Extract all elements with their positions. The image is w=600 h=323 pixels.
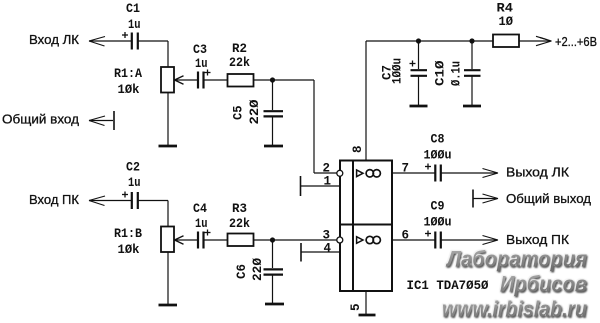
capacitor C9: [425, 231, 441, 249]
supply rail wire: [366, 40, 493, 42]
capacitor C6: [264, 269, 284, 274]
svg-text:1u: 1u: [128, 18, 141, 32]
svg-text:Общий выход: Общий выход: [506, 191, 591, 206]
wire C10 to ground: [471, 76, 473, 105]
svg-text:C4: C4: [193, 202, 207, 216]
svg-text:R2: R2: [232, 42, 247, 56]
wire junction to C6: [272, 240, 274, 268]
pin 1 wire and terminal: [301, 176, 341, 196]
svg-text:22Ø: 22Ø: [251, 258, 265, 281]
svg-text:Лаборатория: Лаборатория: [445, 247, 587, 272]
ground under C10: [463, 105, 481, 108]
ground under C6: [265, 303, 284, 306]
capacitor C8: [425, 164, 441, 182]
capacitor C7: [410, 61, 428, 76]
wire C6 to ground: [272, 275, 274, 303]
svg-text:22k: 22k: [229, 56, 250, 70]
svg-text:1u: 1u: [128, 176, 141, 190]
wiper arrow of R1:A: [175, 76, 198, 84]
node junction R3/C6: [270, 237, 275, 242]
terminal "Общий выход": [473, 190, 498, 208]
svg-text:1u: 1u: [195, 57, 208, 71]
svg-text:C8: C8: [431, 133, 445, 147]
potentiometer R1:A: [161, 67, 174, 93]
svg-text:C9: C9: [431, 200, 445, 214]
wire C9 to output arrow: [442, 236, 499, 245]
svg-text:3: 3: [323, 229, 331, 243]
svg-text:1Øk: 1Øk: [118, 83, 140, 97]
svg-text:C3: C3: [193, 43, 207, 57]
capacitor C5: [264, 111, 284, 116]
ground under C7: [410, 105, 428, 108]
svg-text:8: 8: [351, 145, 365, 153]
amplifier symbol top: [357, 170, 381, 177]
wire R3 to pin3: [254, 239, 337, 241]
svg-text:C6: C6: [235, 264, 249, 279]
svg-text:Ирбисов: Ирбисов: [500, 272, 587, 297]
capacitor C3: [198, 70, 211, 89]
capacitor C4: [198, 230, 211, 249]
wire C5 to ground: [272, 117, 274, 146]
svg-text:Общий вход: Общий вход: [2, 112, 79, 127]
wire C7 to ground: [418, 76, 420, 105]
pin 6 wire to C9: [392, 239, 435, 241]
svg-text:R1:A: R1:A: [114, 67, 142, 81]
terminal "Общий вход": [89, 111, 114, 130]
node junction C7: [416, 38, 421, 43]
svg-text:Выход ПК: Выход ПК: [506, 232, 569, 247]
svg-text:2: 2: [323, 162, 331, 176]
pin 4 wire and terminal: [301, 243, 340, 262]
svg-text:R1:B: R1:B: [114, 227, 142, 241]
wire rail to C10: [471, 41, 473, 69]
svg-text:1ØØu: 1ØØu: [424, 216, 452, 230]
pin 8 wire: [365, 41, 367, 161]
svg-text:1u: 1u: [195, 217, 208, 231]
ground under R1:B: [159, 304, 178, 307]
svg-text:4: 4: [324, 242, 332, 256]
potentiometer R1:B: [161, 227, 174, 253]
capacitor C1: [122, 32, 138, 50]
amplifier symbol bottom: [357, 236, 381, 243]
wire rail to C7: [418, 41, 420, 69]
capacitor C10: [464, 70, 481, 76]
svg-text:Вход ПК: Вход ПК: [29, 192, 79, 207]
svg-text:Выход ЛК: Выход ЛК: [506, 165, 569, 180]
svg-text:+2...+6В: +2...+6В: [555, 34, 597, 49]
svg-text:IC1 TDA7Ø5Ø: IC1 TDA7Ø5Ø: [407, 279, 489, 293]
ground under R1:A: [159, 145, 178, 148]
IC1 TDA7050 body: [340, 161, 392, 292]
input arrow "Вход ЛК": [89, 37, 131, 47]
svg-text:R3: R3: [232, 202, 247, 216]
wire C1 to R1:A top: [138, 41, 168, 67]
wire junction to C5: [272, 80, 274, 110]
node junction R2/C5: [270, 77, 275, 82]
wire C2 to R1:B top: [138, 201, 168, 227]
supply output arrow: [519, 36, 552, 45]
svg-text:Ø.1u: Ø.1u: [450, 61, 464, 86]
node junction C10: [469, 38, 474, 43]
wire R1:B bottom to ground: [167, 252, 169, 304]
svg-text:1Øk: 1Øk: [118, 243, 140, 257]
resistor R4: [493, 35, 519, 48]
pin 2 inverting circle: [337, 170, 343, 176]
svg-text:C1Ø: C1Ø: [434, 60, 448, 86]
pin 7 wire to C8: [392, 172, 435, 174]
svg-text:C2: C2: [126, 161, 140, 175]
svg-text:22Ø: 22Ø: [248, 99, 262, 125]
resistor R3: [228, 234, 254, 247]
pin 5 wire: [365, 291, 367, 314]
svg-text:1: 1: [324, 175, 332, 189]
svg-text:C1: C1: [126, 2, 140, 16]
resistor R2: [228, 74, 254, 87]
wire C3 to R2: [205, 79, 228, 81]
svg-text:www.irbislab.ru: www.irbislab.ru: [442, 297, 587, 322]
svg-text:1ØØu: 1ØØu: [390, 58, 404, 84]
svg-text:5: 5: [349, 303, 363, 311]
svg-text:1Ø: 1Ø: [499, 15, 514, 29]
pin 3 inverting circle: [337, 237, 343, 243]
svg-text:C5: C5: [232, 106, 246, 121]
ground pin 5: [359, 314, 376, 317]
ground under C5: [264, 145, 283, 148]
svg-text:Вход ЛК: Вход ЛК: [29, 32, 79, 47]
wire R2 to pin2 jog: [254, 80, 337, 173]
wire C4 to R3: [205, 239, 228, 241]
wire R1:A bottom to ground: [167, 93, 169, 146]
svg-text:22k: 22k: [229, 217, 250, 231]
capacitor C2: [122, 192, 138, 210]
input arrow "Вход ПК": [89, 196, 131, 206]
wire C8 to output arrow: [442, 169, 499, 178]
svg-text:R4: R4: [497, 2, 514, 16]
wiper arrow of R1:B: [175, 236, 198, 244]
svg-text:1ØØu: 1ØØu: [424, 149, 452, 163]
